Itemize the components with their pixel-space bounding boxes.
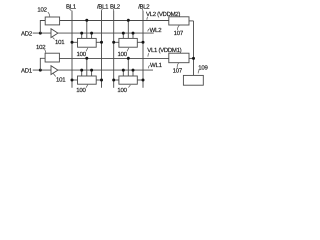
svg-text:102: 102 <box>37 7 47 14</box>
wire WL1 net <box>58 69 153 71</box>
memory cell 100 (row WL2, col BL1) <box>71 19 104 47</box>
label 101 (row WL2) <box>53 37 66 46</box>
node WL1 label <box>148 62 162 69</box>
regulator 107 (VL2) <box>169 17 194 25</box>
label 100 (row WL2, col BL1) <box>77 48 88 58</box>
label 100 (row WL2, col BL2) <box>118 48 129 58</box>
label 100 (row WL1, col BL1) <box>76 85 88 94</box>
node AD1 input <box>21 67 51 74</box>
level shifter 102 (row WL1) <box>40 53 59 70</box>
wire bit line BL1 <box>71 11 73 88</box>
label 101 (row WL1) <box>53 73 66 83</box>
svg-text:WL2: WL2 <box>150 27 163 34</box>
node VL1 (VDDM1) label <box>147 47 181 56</box>
wire bit line /BL2 <box>142 11 144 88</box>
buffer 101 (row WL1) <box>51 66 58 75</box>
wire WL2 net <box>58 32 154 34</box>
label 109 <box>198 65 208 74</box>
svg-text:/BL1: /BL1 <box>97 3 109 10</box>
node BL2 label <box>110 3 121 10</box>
memory cell 100 (row WL1, col BL1) <box>71 57 104 84</box>
wire bit line /BL1 <box>101 11 103 88</box>
svg-text:100: 100 <box>76 87 86 94</box>
svg-text:WL1: WL1 <box>150 62 163 69</box>
svg-text:101: 101 <box>56 76 66 83</box>
wire power bus to 109 <box>193 21 195 76</box>
svg-text:101: 101 <box>55 39 65 46</box>
wire bit line BL2 <box>113 11 115 88</box>
wire VL1 net <box>59 57 168 59</box>
svg-text:AD2: AD2 <box>21 31 33 38</box>
svg-text:109: 109 <box>198 65 208 72</box>
node AD2 input <box>21 31 51 38</box>
svg-text:100: 100 <box>77 51 87 58</box>
svg-text:107: 107 <box>173 68 183 75</box>
node BL1 label <box>66 3 77 10</box>
junction dot AD1 branch <box>39 69 42 72</box>
power supply 109 <box>183 75 203 85</box>
svg-text:/BL2: /BL2 <box>138 3 150 10</box>
node WL2 label <box>148 27 162 34</box>
svg-text:100: 100 <box>118 51 128 58</box>
wire VL2 net <box>60 20 169 22</box>
svg-text:107: 107 <box>174 30 184 37</box>
level shifter 102 (row WL2) <box>40 17 59 33</box>
label 100 (row WL1, col BL2) <box>117 85 130 94</box>
svg-text:BL2: BL2 <box>110 3 121 10</box>
label 107 (VL1) <box>173 63 183 75</box>
junction dot AD2 branch <box>39 32 42 35</box>
node /BL2 label <box>138 3 150 10</box>
memory cell 100 (row WL1, col BL2) <box>112 57 144 84</box>
node VL2 (VDDM2) label <box>146 11 180 20</box>
svg-text:AD1: AD1 <box>21 67 33 74</box>
label 107 (VL2) <box>174 25 184 37</box>
memory cell 100 (row WL2, col BL2) <box>112 19 144 47</box>
label 102 (row WL1) <box>36 44 46 53</box>
node /BL1 label <box>97 3 109 10</box>
svg-text:BL1: BL1 <box>66 3 77 10</box>
junction dot power bus <box>192 57 195 60</box>
regulator 107 (VL1) <box>169 53 194 63</box>
svg-text:100: 100 <box>117 87 127 94</box>
label 102 (row WL2) <box>37 7 49 17</box>
buffer 101 (row WL2) <box>51 29 58 38</box>
